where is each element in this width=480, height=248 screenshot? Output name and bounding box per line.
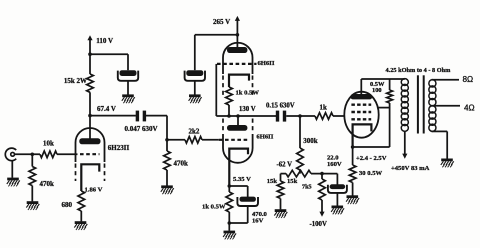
tube V3 envelope dashed top: [222, 119, 224, 134]
node K junction: [228, 221, 232, 225]
wire screen branch to cathode node: [353, 146, 390, 148]
svg-text:265 V: 265 V: [213, 18, 230, 26]
svg-text:1.86 V: 1.86 V: [85, 186, 103, 193]
node IN junction: [31, 153, 35, 157]
resistor R 100 screen: [389, 79, 391, 90]
wire C4 to node K: [247, 206, 249, 223]
ground under 680: [75, 221, 87, 224]
svg-text:-100V: -100V: [310, 221, 327, 228]
input jack J1: [5, 148, 16, 161]
svg-text:6Н23П: 6Н23П: [108, 144, 130, 152]
wire 67.4V to C2: [90, 115, 136, 117]
ground under input 470k: [27, 201, 39, 204]
terminal -100V: [319, 212, 324, 217]
terminal 110 V: [87, 35, 92, 40]
node 130V junctions: [227, 114, 231, 118]
svg-text:1k 0.5W: 1k 0.5W: [236, 89, 260, 96]
svg-text:30 0.5W: 30 0.5W: [359, 170, 382, 177]
svg-text:470k: 470k: [40, 180, 55, 188]
svg-text:15k: 15k: [267, 178, 278, 185]
svg-text:110 V: 110 V: [96, 37, 113, 45]
resistor R 300k: [299, 116, 301, 148]
wire node A to 2k2: [167, 139, 185, 141]
svg-text:5.35 V: 5.35 V: [233, 176, 251, 183]
tube V2 envelope dashed bottom: [222, 76, 224, 99]
wire C2 to node A: [146, 115, 167, 117]
resistor R 470k second: [166, 140, 168, 151]
tube V1 6N23P envelope: [76, 128, 105, 162]
wire tap 4 ohm: [432, 105, 461, 107]
svg-text:15k 2W: 15k 2W: [64, 77, 87, 85]
wire 470k to ground: [31, 186, 33, 202]
svg-text:6Н6П: 6Н6П: [258, 60, 275, 67]
tube V2 6N6P upper envelope: [223, 43, 253, 74]
wire V4 anode up: [360, 79, 362, 94]
terminal +450V: [402, 154, 407, 159]
capacitor C2 0.047 630V: [136, 111, 139, 122]
svg-text:0.15 630V: 0.15 630V: [266, 102, 295, 109]
svg-text:7k5: 7k5: [302, 184, 312, 191]
ground secondary: [441, 158, 453, 161]
svg-text:10k: 10k: [43, 139, 54, 147]
resistor R 1k grid: [315, 113, 333, 120]
wire 1k to node 130V: [228, 105, 230, 116]
ground under 30 ohm: [347, 195, 359, 198]
potentiometer R 15k/7k5: [286, 170, 311, 177]
node 110V junction: [88, 52, 92, 56]
wire node IN down: [31, 154, 33, 166]
resistor R 680: [78, 191, 85, 211]
svg-text:4.25 kOhm to 4 - 8 Ohm: 4.25 kOhm to 4 - 8 Ohm: [386, 67, 452, 74]
wire C6 to ground: [336, 193, 338, 206]
wire C3 to ground: [194, 81, 196, 94]
tube V3 anode plate: [227, 125, 247, 131]
tube V3 grid dashed: [219, 139, 248, 141]
node A junction: [165, 138, 169, 142]
svg-text:2k2: 2k2: [189, 128, 200, 136]
wire C1 to ground: [127, 81, 129, 94]
transformer T1 core: [417, 75, 419, 133]
wire 680 to ground: [80, 211, 82, 221]
resistor R 1k 0.5W upper: [226, 87, 233, 105]
resistor R 1k 0.5W lower: [228, 186, 230, 192]
svg-text:470k: 470k: [174, 159, 189, 167]
svg-text:+450V 83 mA: +450V 83 mA: [391, 165, 430, 172]
resistor R 15k to ground: [280, 174, 282, 181]
wire 265V to C3: [195, 34, 238, 36]
resistor R 2k2: [185, 137, 202, 144]
capacitor C6 22.0 160V: [330, 184, 346, 189]
svg-text:8Ω: 8Ω: [463, 75, 474, 84]
ground under second 470k: [161, 185, 173, 188]
svg-text:15k: 15k: [287, 178, 298, 185]
svg-text:0.047 630V: 0.047 630V: [125, 125, 158, 133]
wire secondary bottom to ground: [432, 130, 448, 132]
svg-text:300k: 300k: [303, 137, 318, 145]
ground jack: [7, 178, 19, 181]
node B junction: [298, 114, 302, 118]
wire bias to C6: [336, 174, 338, 185]
wire bias rail right: [311, 173, 337, 175]
tube V4 cathode: [353, 124, 372, 147]
wire plate rail: [361, 78, 405, 80]
node cathode junction: [351, 145, 355, 149]
tube V3 cathode: [229, 149, 248, 186]
wire 5.35V to C4: [229, 185, 247, 187]
wire bias rail left: [281, 173, 287, 175]
wire V3 anode to 130V rail: [237, 116, 239, 125]
svg-text:100: 100: [372, 87, 382, 94]
svg-text:130 V: 130 V: [239, 106, 256, 113]
ground under V3 cathode: [224, 231, 236, 234]
capacitor C4 470.0 16V: [240, 197, 256, 202]
wire primary bottom to +450V: [404, 131, 406, 155]
resistor R 10k: [40, 151, 57, 158]
wire V1 anode up: [89, 116, 91, 139]
svg-text:1k 0.5W: 1k 0.5W: [202, 203, 226, 210]
wire jack to node IN: [15, 153, 41, 155]
svg-text:+2.4 - 2.5V: +2.4 - 2.5V: [356, 155, 387, 162]
tube V4 anode plate: [351, 94, 373, 99]
tube V1 cathode: [81, 164, 99, 191]
wire 110V to C1: [90, 53, 128, 55]
wire 265V down to V2 anode: [236, 20, 238, 47]
node 265V junction: [236, 33, 240, 37]
svg-text:4Ω: 4Ω: [464, 103, 475, 112]
resistor R 470k input: [29, 167, 36, 186]
tube V1 grid dashed: [80, 153, 100, 155]
resistor R 30 0.5W: [352, 147, 354, 165]
tube V4 grids dashed rows: [351, 103, 371, 105]
transformer T1 secondary winding lower: [429, 106, 436, 113]
wire tap 8 ohm: [432, 79, 460, 81]
tube V2 grid dashed: [217, 63, 257, 65]
wire cathode resistor to node K: [228, 212, 230, 223]
tube V1 envelope dashed bottom: [75, 164, 77, 182]
ground under C3: [189, 94, 201, 97]
svg-text:67.4 V: 67.4 V: [97, 105, 116, 113]
tube V1 anode plate: [79, 138, 100, 144]
svg-text:160V: 160V: [327, 161, 342, 168]
ground under C1: [122, 94, 134, 97]
wire 10k to grid of V1: [57, 153, 78, 155]
tube V2 anode plate: [227, 47, 247, 53]
wire node K to ground: [228, 223, 230, 231]
node 67.4V junction: [88, 114, 92, 118]
wire rail 130V: [216, 115, 276, 117]
node 5.35V junction: [228, 184, 232, 188]
tube V3 6N6P lower envelope: [223, 134, 253, 163]
wire V2 grid down to node 130V: [215, 64, 217, 116]
capacitor C3 electrolytic: [186, 70, 203, 76]
svg-text:16V: 16V: [252, 218, 264, 225]
wire 2k2 to grid of V3: [202, 139, 219, 141]
wire 15k2W to node 67.4V: [89, 92, 91, 115]
svg-text:-62 V: -62 V: [277, 161, 293, 168]
wire C5 to node B: [286, 115, 315, 117]
wire jack shield to ground: [11, 161, 13, 178]
resistor R 15k 2W: [87, 74, 94, 92]
svg-text:680: 680: [62, 201, 73, 209]
capacitor C5 0.15 630V: [276, 111, 279, 122]
svg-text:1k: 1k: [320, 103, 328, 111]
ground under C6: [332, 205, 344, 208]
ground under 15k: [275, 209, 287, 212]
transformer T1 secondary winding upper: [429, 80, 436, 87]
node bias junction: [320, 172, 324, 176]
svg-text:6Н6П: 6Н6П: [256, 133, 273, 140]
wire screen tap into tube: [378, 107, 390, 109]
capacitor C1 electrolytic: [120, 70, 137, 76]
tube V2 cathode: [229, 75, 249, 87]
resistor R to -100V: [321, 174, 323, 179]
tube V4 output envelope: [344, 92, 378, 138]
terminal 265 V: [235, 16, 240, 21]
transformer T1 primary winding: [401, 79, 408, 86]
wire 1k to V4 grid: [333, 115, 345, 117]
